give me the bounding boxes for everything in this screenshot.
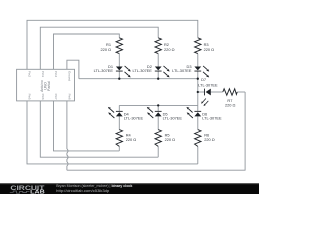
svg-text:LAB: LAB — [30, 190, 45, 194]
resistor R4 — [116, 130, 136, 147]
wire R-D link top column x=158.2 — [157, 54, 159, 67]
wire bottom bus1 Pin7 to R4 — [54, 101, 120, 151]
wire R6 to bottom bus3 — [197, 146, 199, 164]
op-amp U1 Arduino UNO partial block — [17, 69, 75, 101]
svg-text:D7: D7 — [201, 77, 206, 82]
svg-text:220 Ω: 220 Ω — [101, 47, 112, 52]
LED D7 — [198, 77, 218, 106]
svg-text:LTL-307EE: LTL-307EE — [163, 115, 183, 120]
wire R-D link top column x=197.8 — [197, 54, 199, 67]
resistor R1 — [101, 38, 123, 54]
svg-text:Bryan Morrison (skeeter_mcbee): Bryan Morrison (skeeter_mcbee) | binary … — [56, 184, 132, 188]
svg-text:220 Ω: 220 Ω — [204, 47, 215, 52]
wire ground bus2 D4-D6 cathodes — [119, 104, 198, 106]
svg-text:Pin3: Pin3 — [41, 71, 45, 77]
resistor R6 — [195, 130, 215, 147]
LED D2 — [132, 64, 169, 77]
wire R5 to bottom bus2 — [157, 146, 159, 157]
svg-text:Pin6: Pin6 — [41, 94, 45, 100]
LED D4 — [108, 107, 144, 121]
footer credit text — [56, 184, 132, 193]
resistor R7 — [223, 89, 237, 108]
svg-text:Pin4: Pin4 — [54, 71, 58, 77]
wire bottom bus2 Pin6 to R5 — [40, 101, 158, 157]
wire D7 to R7 — [211, 91, 223, 93]
wire ground riser from IC — [67, 60, 79, 78]
node junction bus1-col2 — [157, 78, 159, 80]
wire bottom bus4 Pin8 to R7 — [67, 92, 245, 170]
svg-text:LTL-307EE: LTL-307EE — [132, 68, 152, 73]
svg-text:220 Ω: 220 Ω — [225, 102, 236, 107]
svg-text:http://circuitlab.com/c53lk3dp: http://circuitlab.com/c53lk3dp — [56, 189, 109, 193]
svg-text:Pin5: Pin5 — [28, 94, 32, 100]
footer CircuitLab logo — [10, 185, 45, 196]
wire D7 branch — [198, 91, 204, 93]
wire bottom bus3 Pin5 to R6 — [27, 101, 198, 164]
node junction bus1-col1 — [118, 78, 120, 80]
svg-text:Pin7: Pin7 — [54, 94, 58, 100]
wire R7 right lead — [237, 91, 245, 93]
node junction D7 branch — [197, 91, 199, 93]
wire net Pin3 to R2 top — [40, 27, 158, 69]
wire column3 ground vertical — [197, 79, 199, 106]
resistor R5 — [155, 130, 175, 147]
LED D5 — [147, 107, 183, 121]
svg-text:220 Ω: 220 Ω — [164, 47, 175, 52]
wire net Pin2 to R3 top — [27, 20, 198, 69]
svg-text:Pin8: Pin8 — [68, 94, 72, 100]
LED D6 — [186, 107, 222, 121]
svg-text:LTL-307EE: LTL-307EE — [94, 68, 114, 73]
svg-text:220 Ω: 220 Ω — [204, 137, 215, 142]
wire bottom column x=158.2 — [157, 105, 159, 111]
svg-text:LTL-307EE: LTL-307EE — [198, 83, 218, 88]
node junction bus1-col3 — [197, 78, 199, 80]
LED D3 — [172, 64, 209, 77]
wire bottom column x=197.8 — [197, 105, 199, 111]
wire bottom column x=119.3 — [118, 105, 120, 111]
svg-text:LTL-307EE: LTL-307EE — [202, 115, 222, 120]
footer bar — [0, 183, 259, 194]
wire ground bus1 D1-D3 cathodes — [79, 78, 198, 80]
wire R-D link top column x=119.3 — [118, 54, 120, 67]
wire net Pin4 to R1 top — [54, 34, 120, 69]
svg-text:Ground: Ground — [68, 71, 72, 81]
svg-text:220 Ω: 220 Ω — [165, 137, 176, 142]
resistor R3 — [195, 38, 215, 54]
svg-text:LTL-307EE: LTL-307EE — [172, 68, 192, 73]
svg-text:LTL-307EE: LTL-307EE — [124, 115, 144, 120]
svg-text:220 Ω: 220 Ω — [126, 137, 137, 142]
wire Pin8 drop with hops — [67, 101, 68, 170]
resistor R2 — [155, 38, 175, 54]
svg-text:Pin2: Pin2 — [28, 71, 32, 77]
LED D1 — [94, 64, 131, 77]
node junction bus2-col2 — [157, 104, 159, 106]
wire R4 to bottom bus1 — [118, 146, 120, 151]
svg-text:Partial: Partial — [47, 81, 51, 91]
